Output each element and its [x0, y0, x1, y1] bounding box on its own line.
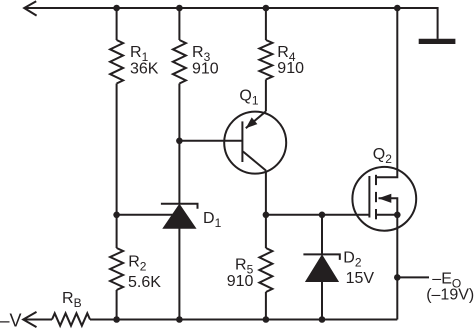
resistor R5 [259, 248, 272, 292]
wire: Q1 collector down [265, 170, 267, 248]
svg-text:910: 910 [277, 60, 304, 77]
svg-text:5.6K: 5.6K [128, 274, 161, 291]
wire: R4 to Q1 emitter [265, 80, 267, 112]
ground [419, 39, 456, 44]
wire: R2 bottom lead [116, 290, 118, 320]
top rail wire [24, 8, 437, 39]
wire: D1 bottom lead [178, 228, 180, 320]
svg-text:(–19V): (–19V) [426, 287, 474, 304]
wire: right rail bottom [396, 215, 398, 320]
wire: bottom rail [90, 319, 397, 321]
top-left arrow to -V rail [24, 1, 36, 15]
resistor RB [52, 313, 90, 325]
svg-text:910: 910 [227, 273, 254, 290]
resistor R1 [110, 40, 123, 84]
resistor R3 [173, 40, 186, 84]
wire: output stub [397, 276, 429, 278]
zener diode D2 [303, 254, 339, 260]
transistor Q2 [352, 167, 416, 231]
wire: R5 bottom lead [265, 292, 267, 320]
transistor Q1 [224, 112, 286, 174]
wire: D2 bottom lead [321, 281, 323, 320]
wire: R3 bottom to D1 [178, 84, 180, 205]
zener diode D1 [161, 204, 198, 209]
wire: V2 top lead [178, 8, 180, 40]
svg-text:15V: 15V [346, 270, 375, 287]
resistor R2 [110, 248, 123, 290]
svg-text:910: 910 [192, 61, 219, 78]
svg-text:36K: 36K [130, 61, 159, 78]
wire: V1 top lead [116, 8, 118, 40]
wire: node row to Q2 gate [266, 214, 370, 216]
wire: V3 top lead [265, 8, 267, 40]
wire: node to D1 anode [117, 214, 174, 216]
wire: right rail top (Q2 drain) [376, 8, 397, 177]
resistor R4 [259, 40, 272, 80]
bottom-left arrow (-V) [23, 312, 36, 327]
svg-text:–V: –V [0, 311, 22, 329]
wire: R1 bottom to node [116, 84, 118, 249]
wire: base wire Q1 [179, 140, 242, 142]
wire: D2 top lead [321, 215, 323, 255]
junction dots [113, 5, 120, 12]
wire: bottom rail left segment [23, 319, 52, 321]
